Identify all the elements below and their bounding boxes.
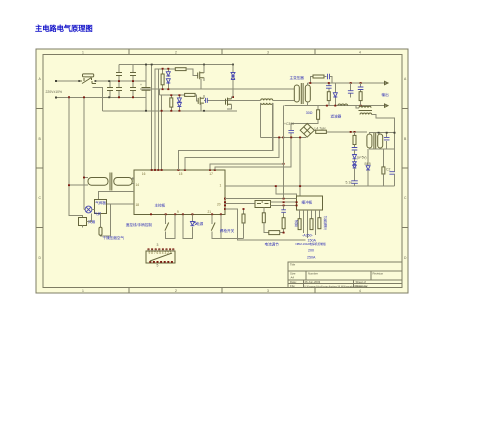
fan wires xyxy=(83,213,92,227)
spec text block xyxy=(296,234,327,260)
main control IC U1 xyxy=(134,170,225,214)
svg-text:焊枪开关: 焊枪开关 xyxy=(220,228,235,233)
resistor R5 vertical xyxy=(170,95,173,111)
wire R6 to Q2 gate xyxy=(195,95,198,101)
feedback cap C14 xyxy=(346,181,358,186)
svg-text:+C300: +C300 xyxy=(284,122,294,126)
wire T1 secondary top to output rail xyxy=(307,83,309,86)
buffer board U3 xyxy=(297,196,323,210)
feedback cap C13 xyxy=(352,148,358,151)
svg-text:遥控线/手柄控制: 遥控线/手柄控制 xyxy=(126,222,153,227)
capacitor C15 xyxy=(386,149,395,186)
electrolytic cap C5 xyxy=(140,65,151,111)
staircase wire S4 xyxy=(215,137,291,170)
shunt RS1 xyxy=(255,201,270,208)
wire L2 tap xyxy=(356,106,394,133)
junction dots EMI xyxy=(108,80,134,98)
wire T1 secondary bottom xyxy=(307,102,309,106)
svg-text:1: 1 xyxy=(82,51,84,55)
feedback chain R12 xyxy=(353,132,356,148)
divider chain C16 xyxy=(281,205,286,212)
feedback zener D7 xyxy=(353,150,367,160)
svg-text:C2: C2 xyxy=(386,168,390,172)
sheet outer border xyxy=(36,49,408,293)
svg-text:2: 2 xyxy=(175,289,177,293)
svg-text:Title: Title xyxy=(290,262,296,266)
title block column lines xyxy=(304,271,372,288)
bus wire 3 xyxy=(157,69,159,170)
svg-text:1: 1 xyxy=(82,289,84,293)
diode pair D3 D4 xyxy=(177,95,181,111)
wire vertical to control transformer primary B xyxy=(83,97,85,209)
svg-text:缓冲板: 缓冲板 xyxy=(302,200,313,205)
svg-text:2: 2 xyxy=(175,51,177,55)
bottom DC rail xyxy=(92,88,237,111)
J1 internal pins xyxy=(149,251,172,255)
snubber resistor R7 xyxy=(310,75,324,83)
capacitor C10 and resistor R9 xyxy=(358,83,364,106)
junction at N split xyxy=(68,96,70,98)
hanging resistor R17 xyxy=(298,219,301,230)
output rail minus xyxy=(285,105,387,107)
resistor R4 horizontal xyxy=(175,68,186,71)
svg-text:5.1u: 5.1u xyxy=(346,181,353,185)
svg-text:15: 15 xyxy=(179,172,183,176)
label overheat vertical xyxy=(324,215,328,231)
U1 bottom pin dots xyxy=(150,213,222,215)
junction dots shunt net xyxy=(283,163,298,206)
svg-text:14: 14 xyxy=(136,183,140,187)
svg-text:200: 200 xyxy=(308,249,314,253)
feedback diodes D8 D9 xyxy=(353,159,357,181)
sheet background xyxy=(36,49,408,293)
capacitor C6 at Q2 xyxy=(204,98,208,103)
junction dots H5 xyxy=(278,137,301,139)
hanging resistor R19 xyxy=(318,218,321,229)
svg-text:1: 1 xyxy=(220,183,222,187)
AC input wire L xyxy=(56,80,146,82)
capacitor column CY1/CY2 xyxy=(116,65,122,98)
svg-text:26-Jun-2003: 26-Jun-2003 xyxy=(305,280,321,284)
feedback bottom rail xyxy=(355,185,395,187)
svg-text:18: 18 xyxy=(136,203,140,207)
capacitor C11 at bridge xyxy=(288,124,294,138)
wire feeds to buffer board xyxy=(276,186,297,196)
snubber capacitor C7 xyxy=(324,74,332,83)
wire U5 feed from U1 xyxy=(99,192,135,200)
T2 secondary connection xyxy=(132,179,134,184)
U1 left stub pin 18 xyxy=(106,203,134,205)
staircase wire S2 xyxy=(185,137,279,170)
choke winding W1 xyxy=(261,99,295,101)
inductor L1 on minus rail xyxy=(338,104,348,106)
svg-text:3: 3 xyxy=(267,289,269,293)
bus wire 2 xyxy=(155,69,176,170)
relay K1 contact xyxy=(78,78,96,84)
junction dots DC rails xyxy=(145,64,234,112)
U1 right pin dots xyxy=(224,198,226,210)
svg-text:+: + xyxy=(140,83,142,87)
AC input wire N xyxy=(56,96,146,98)
solenoid valve V1 xyxy=(84,206,95,213)
svg-text:21: 21 xyxy=(208,210,212,214)
U1 top pin dots xyxy=(151,169,216,171)
svg-text:电流调节: 电流调节 xyxy=(265,241,280,246)
svg-text:主变压器: 主变压器 xyxy=(290,75,305,80)
svg-text:250A: 250A xyxy=(307,256,316,260)
wire bridge to aux transformer xyxy=(326,131,367,133)
resistor R20 xyxy=(242,208,245,239)
loop3 torch switch xyxy=(211,214,243,238)
svg-text:电源: 电源 xyxy=(196,221,204,226)
junction dots buffer feed xyxy=(275,185,301,187)
junction snubber xyxy=(309,82,311,84)
staircase wire S1 xyxy=(178,103,273,170)
control transformer T2 xyxy=(88,173,132,191)
capacitor C9 xyxy=(348,83,354,98)
svg-text:220V±10%: 220V±10% xyxy=(46,90,63,94)
svg-text:丝: 丝 xyxy=(295,223,299,228)
svg-text:30Ω: 30Ω xyxy=(306,111,313,115)
page title xyxy=(35,24,93,34)
mid rail to transformer primary xyxy=(140,88,294,90)
svg-text:9: 9 xyxy=(177,210,179,214)
zone labels xyxy=(39,51,408,294)
border zone ticks left xyxy=(36,109,43,228)
resistor R6 horizontal xyxy=(185,93,196,96)
capacitor CX1 xyxy=(107,81,113,97)
output rail plus xyxy=(308,82,388,84)
svg-text:File:: File: xyxy=(290,284,296,288)
main transformer T1 xyxy=(294,83,310,104)
bus wire 4 xyxy=(161,95,163,170)
svg-text:示: 示 xyxy=(324,227,328,231)
wire Q2 to choke xyxy=(208,99,261,101)
TVS diode column D5 xyxy=(231,65,235,99)
title block text xyxy=(290,262,384,288)
T2 junction dots xyxy=(68,177,85,187)
aux transformer T3 xyxy=(367,133,383,149)
junction aux feed xyxy=(350,131,356,133)
J1 top pin stubs xyxy=(149,250,174,251)
svg-text:20: 20 xyxy=(217,203,221,207)
junctions output filter xyxy=(326,82,362,106)
zener D6 xyxy=(333,83,337,106)
svg-text:滤波器: 滤波器 xyxy=(331,114,342,119)
lower gate line xyxy=(160,89,185,95)
resistor R13 xyxy=(382,149,385,186)
U1 pin numbers xyxy=(136,172,222,214)
title block row lines xyxy=(288,271,402,284)
node rail H5 xyxy=(261,137,306,196)
top DC rail xyxy=(119,64,233,66)
transistor Q1 xyxy=(198,65,204,90)
output arrow bottom xyxy=(385,104,389,107)
bridge rectifier U4 xyxy=(300,124,314,138)
choke winding W2 xyxy=(261,103,273,151)
capacitor C12 aux xyxy=(384,137,390,140)
svg-text:A4: A4 xyxy=(291,276,295,280)
J1 bottom pin dots xyxy=(149,261,173,263)
fan box M1 xyxy=(79,217,87,225)
svg-text:L4 7uH: L4 7uH xyxy=(315,127,326,131)
loop1 remote control xyxy=(165,214,175,238)
wire U1 pin1 long net xyxy=(225,185,395,187)
svg-text:16: 16 xyxy=(142,172,146,176)
J1 top pin dots xyxy=(148,248,175,250)
svg-text:D:\Program Files\Design Explor: D:\Program Files\Design Explorer 99 SE\E… xyxy=(305,285,369,288)
svg-text:干燥压缩空气: 干燥压缩空气 xyxy=(103,235,125,240)
junction dots aux xyxy=(378,132,396,134)
wire bottom net xyxy=(225,209,306,240)
loop2 power LED xyxy=(183,214,197,238)
title block frame xyxy=(288,262,402,288)
diode pair D1 D2 xyxy=(166,69,170,90)
svg-text:3: 3 xyxy=(157,243,159,247)
J1 diagonal xyxy=(150,253,172,261)
resistor R16 horizontal xyxy=(269,231,285,235)
wire U1 to shunt xyxy=(225,199,297,204)
junction dots gate cluster xyxy=(162,68,170,90)
zener D10 xyxy=(365,149,371,186)
svg-text:NBM-160A电焊机控制板: NBM-160A电焊机控制板 xyxy=(296,242,327,246)
svg-text:4: 4 xyxy=(359,289,361,293)
U1 left stub pin 14 xyxy=(132,177,134,179)
svg-text:输出: 输出 xyxy=(382,92,390,97)
svg-text:4: 4 xyxy=(359,51,361,55)
hanging resistor R18 xyxy=(310,219,313,230)
resistor R11 at bridge output xyxy=(314,127,326,134)
border zone ticks top xyxy=(129,49,315,55)
U3 bottom pin wires xyxy=(300,210,320,238)
svg-text:-A350-: -A350- xyxy=(302,234,314,238)
svg-text:5: 5 xyxy=(157,263,159,267)
divider resistor R14 xyxy=(282,212,285,232)
resistor R10 vertical xyxy=(291,106,319,124)
resistor R3 vertical xyxy=(161,69,164,90)
shunt to buffer wires xyxy=(270,202,296,205)
label wire feed vertical xyxy=(295,219,299,228)
svg-text:气阀板: 气阀板 xyxy=(95,200,106,205)
filter cap C8 and resistor R8 xyxy=(326,83,332,106)
relay K1 coil xyxy=(83,74,94,77)
AC input terminal dots xyxy=(55,80,57,82)
T2 primary connections xyxy=(69,178,88,186)
wire R4 to Q1 gate xyxy=(186,69,197,75)
transistor Q2 xyxy=(198,95,204,111)
gas box bottom wires xyxy=(101,204,111,236)
resistor R15 xyxy=(262,208,269,233)
bus wire 1 xyxy=(151,65,153,171)
staircase wire S3 xyxy=(210,164,284,170)
svg-text:Revision: Revision xyxy=(373,272,384,276)
wire divider feed vertical xyxy=(283,106,285,199)
svg-text:Number: Number xyxy=(308,272,318,276)
junction dots lower cluster xyxy=(161,88,181,111)
wire vertical to control transformer primary A xyxy=(69,97,83,217)
current transformer L2 winding bottom xyxy=(358,109,372,111)
capacitor column CY3/CY4 xyxy=(130,65,136,98)
current transformer L2 winding top xyxy=(359,106,371,108)
svg-text:17: 17 xyxy=(209,172,213,176)
aux transformer top and bottom rails xyxy=(369,133,394,149)
svg-text:3: 3 xyxy=(267,51,269,55)
border zone ticks bottom xyxy=(129,288,315,294)
sheet inner border xyxy=(43,55,402,288)
transistor Q3 xyxy=(226,97,234,109)
border zone ticks right xyxy=(402,109,408,228)
svg-text:(a=5v): (a=5v) xyxy=(357,156,367,160)
connector J1 xyxy=(146,251,175,263)
wire T1 primary top xyxy=(295,88,297,90)
pressure switch S2 xyxy=(99,227,102,235)
svg-text:主控板: 主控板 xyxy=(155,203,166,208)
gas control box U5 xyxy=(95,200,107,214)
output arrow top xyxy=(385,81,389,84)
